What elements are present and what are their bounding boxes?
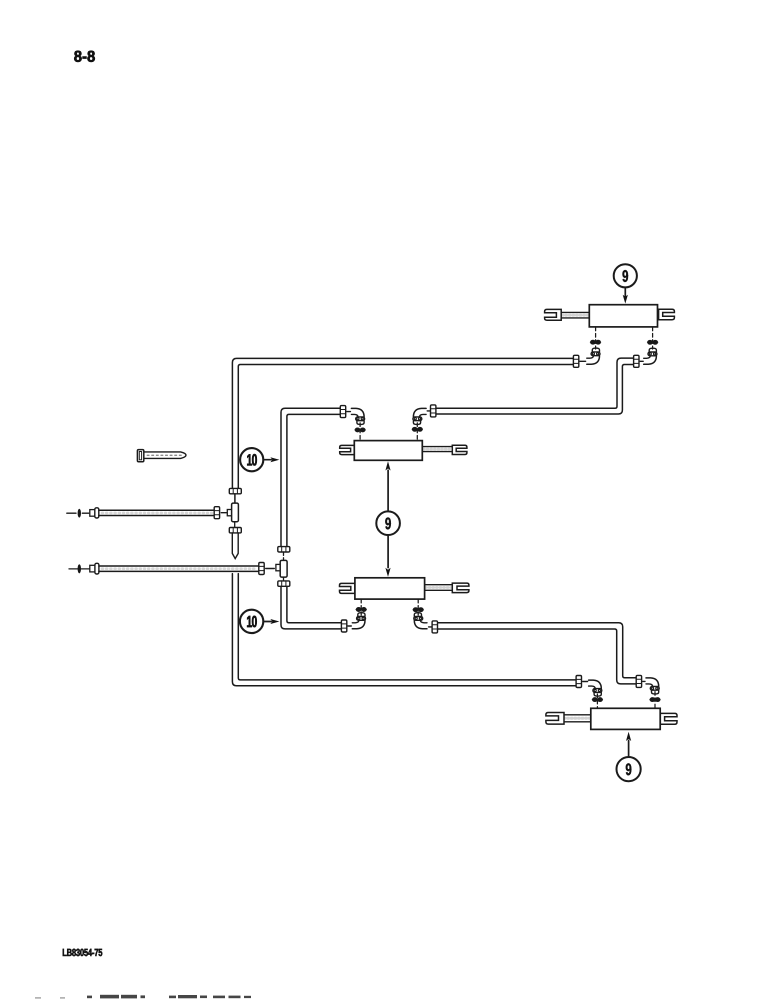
elbow at top-right cylinder right port	[644, 348, 657, 364]
bottom-right cylinder right clevis	[660, 713, 677, 724]
wire pipe A lower run: tee 1 to bottom-right cylinder left port	[232, 574, 576, 686]
bottom-right cylinder body	[591, 708, 660, 729]
upper-middle cylinder right clevis	[452, 445, 467, 454]
washer at bottom-right cylinder right port	[650, 698, 660, 702]
upper-middle cylinder rod	[422, 447, 453, 452]
nut on pipe D above tee 2	[278, 547, 290, 552]
tee 2 lower dash	[283, 577, 285, 581]
callout 9 (bottom, points to bottom-right cylinder)	[617, 732, 641, 781]
wire pipe C: top-right cylinder right port to upper-middle cylinder right port	[436, 358, 634, 414]
tee 1 lower dash	[234, 522, 236, 527]
bottom-right cylinder rod	[563, 715, 592, 722]
wire pipe A upper run: top-right cylinder left port to tee 1	[232, 358, 573, 488]
tee 2 neck dash	[283, 552, 285, 560]
lower-middle cylinder left port dashed line	[360, 599, 362, 615]
top-right cylinder left port dashed line	[595, 327, 597, 349]
callout 9 (middle, double arrow between middle cylinders)	[376, 461, 400, 577]
upper-middle cylinder left clevis	[340, 445, 355, 454]
wire pipe E: lower-middle cylinder right port to bottom-right cylinder right port	[437, 623, 636, 684]
callout 9 (top, points to top-right cylinder)	[614, 264, 637, 303]
nut on pipe at lower-middle cylinder left port	[341, 620, 346, 632]
bottom-right cylinder left port dashed line	[596, 694, 598, 708]
nut on pipe at lower-middle cylinder right port	[432, 621, 437, 633]
tee fitting 2	[276, 560, 287, 577]
elbow at top-right cylinder left port	[587, 348, 600, 364]
hose 2 (left feed hose, lower)	[69, 563, 274, 575]
nut on hose at top-right cylinder left port	[573, 355, 578, 367]
elbow at lower-middle cylinder left port	[352, 613, 365, 629]
washer at top-right cylinder right port	[647, 340, 657, 344]
nut on pipe at bottom-right cylinder right port	[636, 675, 641, 687]
elbow at upper-middle cylinder right port	[413, 408, 426, 424]
nut on hose at bottom-right cylinder left port	[576, 676, 581, 688]
nut on pipe at upper-middle cylinder right port	[431, 405, 436, 417]
lower-middle cylinder right clevis	[452, 583, 469, 593]
nut below tee 1	[229, 528, 241, 533]
top-right cylinder left clevis	[545, 309, 562, 320]
callout 10 (upper, points to pipe D)	[240, 448, 279, 471]
page number 8-8	[74, 51, 95, 62]
bottom-right cylinder right port dashed line	[654, 692, 656, 709]
elbow at bottom-right cylinder right port	[646, 678, 659, 694]
bottom-right cylinder left clevis	[546, 713, 564, 725]
upper-middle cylinder right port dashed line	[416, 423, 418, 441]
nut below tee 2	[278, 581, 290, 586]
hose 1 (left feed hose, upper)	[67, 507, 227, 519]
pipe stub with pointed tip below tee 1	[232, 533, 238, 559]
upper-middle cylinder left port dashed line	[359, 423, 361, 441]
nut on pipe A above tee 1	[229, 488, 241, 493]
washer at top-right cylinder left port	[590, 340, 600, 344]
washer at lower-middle cylinder right port	[413, 608, 423, 612]
callout 10 (lower, points to pipe D corner)	[240, 610, 279, 633]
top-right cylinder right port dashed line	[652, 327, 654, 349]
elbow at upper-middle cylinder left port	[351, 408, 364, 424]
top-right cylinder right clevis	[659, 309, 675, 319]
figure number LB83054-75	[63, 949, 102, 956]
nut on pipe at top-right cylinder right port	[634, 355, 639, 367]
tee 1 neck	[234, 494, 236, 503]
lower-middle cylinder left clevis	[340, 583, 356, 593]
washer at bottom-right cylinder left port	[592, 698, 602, 702]
top-right cylinder rod	[561, 312, 590, 318]
washer at upper-middle cylinder right port	[412, 427, 422, 431]
clipped print fragments at bottom page edge	[35, 995, 251, 999]
wire pipe D upper run: upper-middle cylinder left port down to tee 2	[281, 408, 340, 546]
upper-middle cylinder body	[354, 441, 422, 461]
lower-middle cylinder rod	[424, 585, 452, 591]
washer at lower-middle cylinder left port	[356, 608, 366, 612]
bolt	[137, 450, 186, 462]
top-right cylinder body	[589, 305, 657, 327]
nut on pipe at upper-middle cylinder left port	[340, 406, 345, 418]
elbow at lower-middle cylinder right port	[414, 613, 427, 629]
elbow at bottom-right cylinder left port	[589, 680, 602, 696]
tee fitting 1	[227, 503, 238, 522]
wire pipe D lower run: tee 2 down and right to lower-middle cylinder left port	[281, 586, 342, 629]
lower-middle cylinder right port dashed line	[417, 599, 419, 615]
lower-middle cylinder body	[355, 578, 425, 599]
washer at upper-middle cylinder left port	[355, 428, 365, 432]
